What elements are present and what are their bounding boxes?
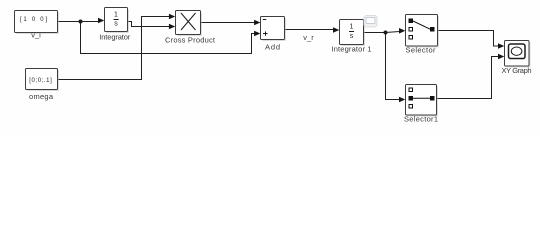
svg-text:Selector1: Selector1: [404, 115, 438, 124]
svg-text:Cross Product: Cross Product: [165, 35, 216, 44]
svg-text:Add: Add: [265, 42, 280, 51]
svg-text:1: 1: [350, 24, 354, 31]
svg-text:Selector: Selector: [406, 45, 437, 54]
svg-text:Integrator 1: Integrator 1: [332, 45, 372, 54]
svg-text:s: s: [350, 33, 354, 40]
svg-text:XY Graph: XY Graph: [502, 66, 532, 75]
svg-text:s: s: [114, 21, 118, 28]
svg-text:v_r: v_r: [303, 33, 314, 42]
svg-text:[1 0 0]: [1 0 0]: [20, 17, 47, 23]
svg-text:v_i: v_i: [31, 30, 41, 39]
svg-text:Integrator: Integrator: [99, 32, 131, 41]
svg-text:omega: omega: [29, 92, 54, 101]
svg-text:[0;0;.1]: [0;0;.1]: [29, 78, 52, 84]
svg-text:1: 1: [114, 12, 118, 19]
